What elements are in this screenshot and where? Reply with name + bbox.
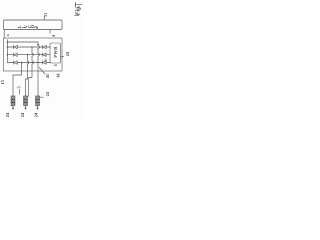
svg-text:15: 15: [0, 80, 5, 84]
branch wire row1 to P2 right pin: [29, 47, 34, 97]
label Fig. 7: [75, 2, 82, 7]
row 1 wire to PWB: [46, 46, 50, 48]
junction bus / inner top wire: [7, 41, 9, 43]
diode D1: [14, 45, 18, 48]
text labels (all rotated 90 CCW as in scanned figure): [0, 2, 82, 117]
junction row 2 / branch P2: [27, 54, 29, 56]
svg-text:61: 61: [55, 73, 60, 77]
battery module box (top): [4, 20, 63, 30]
leader line to reference 41: [39, 68, 45, 75]
junction bus / row 1: [7, 46, 9, 48]
row 1 wire right: [17, 46, 42, 48]
circuit block boundary: [4, 38, 63, 71]
diode D5: [14, 61, 18, 64]
diode D2: [43, 45, 47, 48]
branch wire to connector P2: [25, 55, 29, 96]
junction row 1 / branch: [31, 46, 33, 48]
leader tick to reference 21: [61, 56, 64, 58]
svg-text:Fig.: Fig.: [75, 5, 81, 15]
connector P3: [36, 96, 40, 110]
row 3 wire to PWB: [46, 62, 50, 64]
junction dots: [7, 41, 39, 63]
svg-text:nv: nv: [54, 63, 58, 67]
row 1 wire: [8, 46, 14, 48]
row 2 wire: [8, 54, 14, 56]
svg-text:5: 5: [17, 86, 22, 88]
diode D3: [14, 53, 18, 56]
inner top wire: [8, 42, 39, 45]
svg-text:PWB: PWB: [53, 47, 58, 58]
connector P2: [24, 96, 28, 110]
row 3 wire right: [17, 62, 42, 64]
vertical wire with hops to connector P3: [38, 45, 39, 96]
junction inner top wire / vertical: [37, 44, 39, 46]
branch wire to connector P1: [13, 63, 22, 96]
connector P1: [11, 96, 15, 110]
leader tick to reference 34: [40, 96, 44, 98]
svg-text:41: 41: [45, 74, 50, 78]
junction row 3 / vertical: [37, 62, 39, 64]
leader tick to reference 5: [18, 89, 20, 94]
diode D6: [43, 61, 47, 64]
wire from battery box to circuit block: [3, 30, 5, 39]
row 3 wire: [8, 62, 14, 64]
leader line to reference 51: [44, 16, 46, 20]
svg-text:a: a: [6, 34, 10, 36]
diode D4: [43, 53, 47, 56]
leader tick to reference 4: [49, 30, 51, 34]
junction bus / row 2: [7, 54, 9, 56]
bus wire: [7, 40, 9, 63]
PWB box: [50, 43, 61, 63]
row 2 wire to PWB: [46, 54, 50, 56]
junction row 3 / branch P1: [21, 62, 23, 64]
svg-text:51: 51: [44, 13, 48, 17]
row 2 wire right: [17, 54, 42, 56]
